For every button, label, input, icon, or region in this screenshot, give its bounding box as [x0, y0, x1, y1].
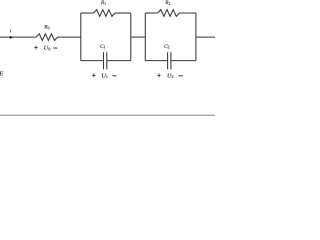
svg-text:i: i	[10, 28, 12, 34]
svg-text:R1: R1	[100, 0, 106, 6]
svg-text:R0: R0	[43, 25, 49, 31]
svg-text:U1: U1	[101, 73, 108, 79]
svg-text:C2: C2	[164, 44, 169, 50]
svg-text:E: E	[0, 71, 3, 78]
svg-text:U2: U2	[167, 73, 174, 79]
svg-text:C1: C1	[100, 44, 105, 50]
svg-text:R2: R2	[164, 0, 170, 6]
svg-text:U0: U0	[44, 45, 51, 51]
